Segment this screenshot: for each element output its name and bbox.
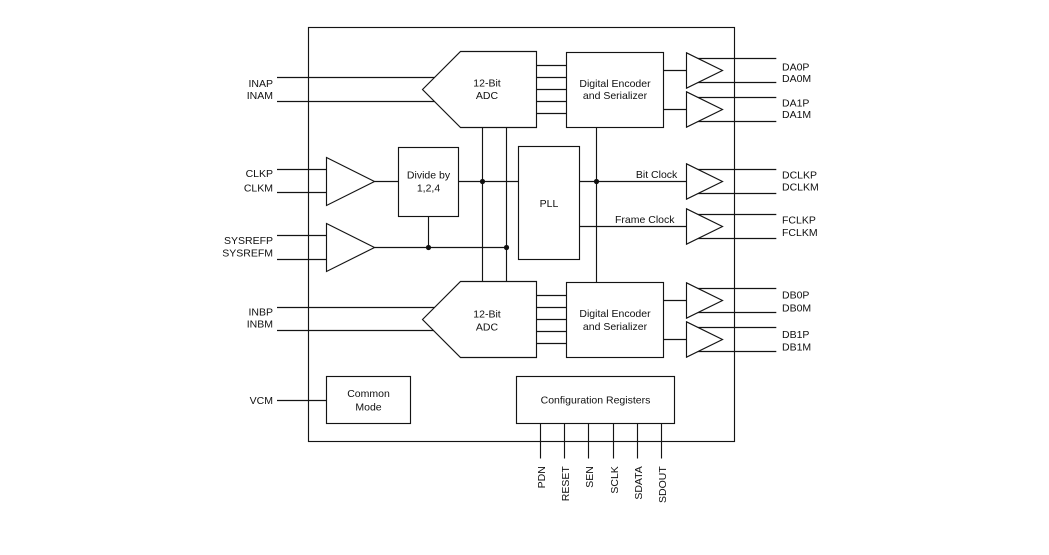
- 12-bit ADC A block: [423, 52, 537, 128]
- wire bit clock: [580, 181, 688, 183]
- svg-text:SYSREFM: SYSREFM: [222, 248, 273, 260]
- wire serializer A to buffer DA1: [664, 109, 687, 111]
- output buffer DCLK: [687, 164, 723, 199]
- svg-text:and Serializer: and Serializer: [583, 321, 648, 333]
- svg-text:DB0M: DB0M: [782, 303, 811, 315]
- output buffer DB1: [687, 322, 723, 357]
- svg-text:DA1P: DA1P: [782, 98, 809, 110]
- wire INAP: [277, 77, 435, 79]
- digital encoder and serializer A block: [567, 53, 664, 128]
- wire ADC B data bus line 4: [537, 331, 567, 333]
- wire INAM: [277, 101, 435, 103]
- wire divider output to PLL: [459, 181, 519, 183]
- svg-text:SDATA: SDATA: [633, 466, 645, 499]
- wire pin PDN: [540, 424, 542, 459]
- wire pin SDATA: [637, 424, 639, 459]
- svg-text:INAP: INAP: [248, 78, 273, 90]
- svg-text:RESET: RESET: [560, 466, 572, 502]
- wire serializer clock vertical C: [596, 128, 598, 283]
- svg-text:DA0M: DA0M: [782, 73, 811, 85]
- svg-text:DB1M: DB1M: [782, 342, 811, 354]
- PLL block: [519, 147, 580, 260]
- wire output FCLKM: [688, 238, 776, 240]
- svg-text:INBP: INBP: [248, 306, 273, 318]
- wire sysref vertical bus B: [506, 128, 508, 282]
- svg-text:ADC: ADC: [476, 90, 499, 102]
- wire SYSREFP: [277, 235, 327, 237]
- svg-text:PDN: PDN: [536, 466, 548, 488]
- svg-text:ADC: ADC: [476, 321, 499, 333]
- wire output DCLKP: [688, 169, 776, 171]
- svg-text:Digital Encoder: Digital Encoder: [579, 308, 651, 320]
- svg-text:SDOUT: SDOUT: [657, 466, 669, 503]
- svg-text:12-Bit: 12-Bit: [473, 77, 501, 89]
- clock input buffer: [327, 158, 375, 206]
- sysref input buffer: [327, 224, 375, 272]
- svg-text:SCLK: SCLK: [609, 466, 621, 493]
- svg-text:SEN: SEN: [584, 466, 596, 488]
- wire ADC B data bus line 1: [537, 295, 567, 297]
- output buffer DA0: [687, 53, 723, 88]
- junction dot bit clock net: [594, 179, 599, 184]
- chip boundary box: [309, 28, 735, 442]
- wire ADC A data bus line 4: [537, 101, 567, 103]
- wire output DA1M: [688, 121, 776, 123]
- svg-text:DA1M: DA1M: [782, 109, 811, 121]
- svg-text:Mode: Mode: [355, 401, 381, 413]
- output buffer DB0: [687, 283, 723, 318]
- svg-text:DA0P: DA0P: [782, 62, 809, 74]
- wire clock vertical bus A: [482, 128, 484, 282]
- svg-text:Bit Clock: Bit Clock: [636, 169, 678, 181]
- wire output DA1P: [688, 97, 776, 99]
- wire ADC B data bus line 3: [537, 319, 567, 321]
- svg-text:12-Bit: 12-Bit: [473, 308, 501, 320]
- svg-text:Divide by: Divide by: [407, 169, 451, 181]
- wire output DCLKM: [688, 193, 776, 195]
- svg-text:and Serializer: and Serializer: [583, 90, 648, 102]
- wire pin SCLK: [613, 424, 615, 459]
- svg-text:DCLKP: DCLKP: [782, 170, 817, 182]
- output buffer FCLK: [687, 209, 723, 244]
- wire output DB0M: [688, 312, 776, 314]
- wire CLKM: [277, 192, 327, 194]
- wire ADC B data bus line 2: [537, 307, 567, 309]
- junction dot sysref net at divider: [426, 245, 431, 250]
- wire output DA0P: [688, 58, 776, 60]
- wire ADC A data bus line 5: [537, 113, 567, 115]
- svg-text:Digital Encoder: Digital Encoder: [579, 78, 651, 90]
- junction dot divider output: [480, 179, 485, 184]
- svg-text:DCLKM: DCLKM: [782, 182, 819, 194]
- svg-text:INAM: INAM: [247, 90, 273, 102]
- wire output FCLKP: [688, 214, 776, 216]
- wire INBP: [277, 307, 435, 309]
- wire ADC A data bus line 3: [537, 89, 567, 91]
- svg-text:DB1P: DB1P: [782, 329, 809, 341]
- wire pin SDOUT: [661, 424, 663, 459]
- wire pin RESET: [564, 424, 566, 459]
- svg-text:VCM: VCM: [250, 395, 273, 407]
- common mode block: [327, 377, 411, 424]
- wire divider bottom to sysref net: [428, 217, 430, 248]
- wire ADC A data bus line 1: [537, 65, 567, 67]
- wire pin SEN: [588, 424, 590, 459]
- svg-text:FCLKM: FCLKM: [782, 227, 818, 239]
- wire CLKP: [277, 169, 327, 171]
- digital encoder and serializer B block: [567, 283, 664, 358]
- svg-text:Configuration Registers: Configuration Registers: [541, 394, 651, 406]
- svg-text:1,2,4: 1,2,4: [417, 182, 441, 194]
- wire output DA0M: [688, 82, 776, 84]
- wire serializer B to buffer DB1: [664, 339, 687, 341]
- output buffer DA1: [687, 92, 723, 127]
- wire INBM: [277, 330, 435, 332]
- svg-text:FCLKP: FCLKP: [782, 215, 816, 227]
- wire ADC B data bus line 5: [537, 343, 567, 345]
- wire ADC A data bus line 2: [537, 77, 567, 79]
- divide by 1,2,4 block: [399, 148, 459, 217]
- wire VCM: [277, 400, 327, 402]
- wire serializer B to buffer DB0: [664, 300, 687, 302]
- 12-bit ADC B block: [423, 282, 537, 358]
- svg-text:Frame Clock: Frame Clock: [615, 214, 675, 226]
- svg-text:Common: Common: [347, 388, 390, 400]
- wire clock buffer to divider: [375, 181, 399, 183]
- svg-text:SYSREFP: SYSREFP: [224, 235, 273, 247]
- wire serializer A to buffer DA0: [664, 70, 687, 72]
- svg-text:CLKP: CLKP: [246, 168, 273, 180]
- wire frame clock: [580, 226, 688, 228]
- svg-text:PLL: PLL: [540, 198, 559, 210]
- wire output DB0P: [688, 288, 776, 290]
- configuration registers block: [517, 377, 675, 424]
- wire SYSREFM: [277, 259, 327, 261]
- junction dot sysref net at bus B: [504, 245, 509, 250]
- svg-text:CLKM: CLKM: [244, 182, 273, 194]
- svg-text:INBM: INBM: [247, 318, 273, 330]
- wire output DB1M: [688, 351, 776, 353]
- wire output DB1P: [688, 327, 776, 329]
- wire sysref buffer output: [375, 247, 507, 249]
- svg-text:DB0P: DB0P: [782, 290, 809, 302]
